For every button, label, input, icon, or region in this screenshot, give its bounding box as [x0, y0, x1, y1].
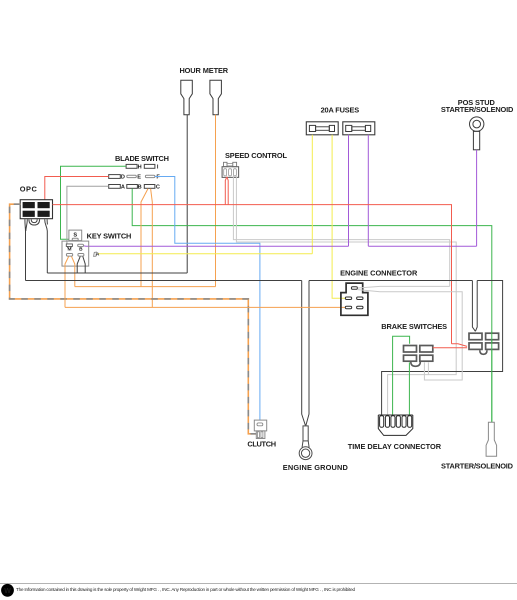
brake switch 2 cell 2 [486, 333, 499, 340]
wire gray blade A to key switch M [67, 186, 109, 244]
fuse F2 body [343, 122, 375, 135]
blade switch terminal F [145, 175, 155, 177]
fuse F1 element [316, 127, 330, 131]
clutch prong 2 [261, 432, 263, 438]
pos stud barrel [473, 131, 479, 149]
wire white speed control pair line 1 [233, 176, 449, 286]
OPC pin 1 [23, 202, 35, 208]
svg-text:The Information contained in t: The Information contained in this drawin… [16, 587, 355, 592]
key switch body [62, 241, 89, 266]
engine connector pin 2 [357, 297, 363, 300]
svg-text:ENGINE CONNECTOR: ENGINE CONNECTOR [340, 268, 418, 277]
speed control tab 2 [233, 162, 237, 166]
fuse F1 body [306, 122, 338, 135]
clutch slot [257, 423, 263, 426]
svg-text:B: B [79, 247, 83, 253]
speed control tab bar [227, 164, 233, 166]
wire orange blade C leg 1 [141, 189, 148, 287]
svg-text:BRAKE SWITCHES: BRAKE SWITCHES [381, 322, 447, 331]
svg-text:BLADE SWITCH: BLADE SWITCH [115, 154, 169, 163]
key switch bottom terminal 2 [78, 254, 84, 257]
wire orange bus to engine connector [65, 306, 346, 308]
footer rule [0, 583, 517, 585]
wire black hour meter terminal 1 down [186, 115, 188, 273]
svg-text:TIME DELAY CONNECTOR: TIME DELAY CONNECTOR [348, 442, 442, 451]
logo wright mfg [1, 584, 14, 597]
time delay connector body [378, 415, 413, 435]
svg-text:A: A [121, 185, 125, 191]
wire orange blade C leg 2 [151, 189, 153, 308]
wire green blade B down and across to brake switch [132, 189, 492, 422]
wire white speed control pair line 2 [236, 176, 456, 416]
wire black brake switch drop [472, 281, 477, 332]
brake switch 2 loop [480, 350, 487, 354]
wire purple key switch B to fuse and pos stud [84, 245, 477, 247]
fuse F2 element [352, 127, 366, 131]
speed control pin 1 [224, 169, 227, 176]
svg-text:W: W [4, 588, 11, 595]
wire white pair stub at brake switch [427, 362, 429, 374]
blade switch terminal E [127, 175, 137, 177]
brake switch 2 cell 3 [469, 343, 482, 350]
wire blue blade F to clutch [155, 177, 260, 425]
wire purple fuse F2 left leg [348, 135, 350, 246]
blade switch terminal H [126, 164, 137, 168]
svg-text:CLUTCH: CLUTCH [247, 439, 276, 448]
svg-text:STARTER/SOLENOID: STARTER/SOLENOID [441, 105, 514, 114]
hour meter terminal 1 [181, 80, 193, 115]
brake switch 1 loop [411, 362, 421, 366]
engine ground ring hole [301, 449, 309, 457]
svg-text:D: D [121, 175, 125, 181]
brake switch 1 cell 4 [420, 355, 433, 361]
time delay pin 6 [408, 416, 412, 428]
svg-text:STARTER/SOLENOID: STARTER/SOLENOID [441, 461, 514, 470]
time delay pin 4 [396, 416, 400, 428]
OPC pin 2 [38, 202, 50, 208]
wire yellow key switch A to fuse F1 [99, 253, 313, 255]
wire purple pos stud down [476, 150, 478, 246]
engine connector pin 3 [345, 306, 351, 309]
svg-text:SPEED CONTROL: SPEED CONTROL [225, 151, 287, 160]
OPC jumper loop [29, 219, 40, 225]
brake switch 1 cell 1 [404, 346, 417, 353]
key switch S housing [69, 230, 82, 241]
fuse F2 contact left [346, 125, 352, 131]
wire white engine connector pair line 2 [358, 290, 462, 380]
svg-text:I: I [157, 164, 159, 170]
speed control tab 1 [224, 162, 228, 166]
wire orange key switch leg to hour meter net [72, 256, 75, 286]
engine connector pin 4 [357, 306, 363, 309]
svg-text:20A FUSES: 20A FUSES [321, 105, 360, 114]
time delay pin 5 [402, 416, 406, 428]
wire green time delay to brake switch 1 top [393, 336, 410, 416]
svg-text:M: M [68, 247, 72, 253]
key switch B terminal [78, 244, 84, 246]
wire orange-gray striped OPC to clutch [10, 204, 258, 434]
key switch S terminal [72, 238, 78, 240]
speed control pin 3 [234, 169, 237, 176]
svg-text:OPC: OPC [20, 184, 38, 193]
wire green brake switch 1 bottom to time delay [408, 362, 410, 416]
wire black key switch leg 1 [77, 256, 80, 273]
brake switch 1 cell 2 [420, 346, 433, 353]
wire white engine connector pair line 1 [358, 286, 450, 288]
wire orange key switch leg to engine connector [65, 256, 69, 307]
time delay pin 2 [385, 416, 389, 428]
clutch prong 1 [257, 432, 259, 438]
pos stud ring hole [473, 120, 481, 128]
svg-text:F: F [156, 175, 160, 181]
pos stud ring terminal [470, 117, 484, 131]
blade switch terminal I [144, 164, 155, 168]
brake switch 2 cell 4 [486, 343, 499, 350]
wire red blade D to OPC [45, 177, 109, 200]
wire purple fuse F2 right leg [367, 135, 369, 246]
wire red speed control loop [225, 177, 228, 205]
speed control pin 2 [229, 169, 232, 176]
hour meter terminal 2 [210, 80, 222, 115]
wire black bus OPC to engine ground and brake switches [26, 281, 503, 417]
time delay connector top edge [378, 414, 413, 416]
wire red into brake switch 2 [433, 344, 467, 348]
OPC pin 3 [23, 211, 35, 217]
blade switch terminal A [109, 185, 121, 189]
starter solenoid bullet terminal [486, 422, 497, 456]
svg-text:KEY SWITCH: KEY SWITCH [87, 231, 132, 240]
clutch connector body [254, 420, 266, 431]
wire green blade H to key switch S [61, 166, 127, 239]
blade switch terminal B [127, 185, 138, 189]
wire red OPC right side across page [53, 205, 452, 344]
wire orange hour meter terminal 2 down [215, 115, 217, 287]
spade terminal A [94, 252, 97, 256]
svg-text:E: E [137, 175, 141, 181]
brake switch 1 cell 3 [404, 355, 417, 361]
wire black OPC pin 4 to hour meter run [45, 219, 48, 273]
wire black engine ground drop [302, 281, 309, 426]
wire yellow fuse F1 right leg to engine connector [332, 135, 346, 298]
key switch M terminal [66, 244, 72, 248]
blade switch terminal D [109, 175, 121, 179]
svg-text:H: H [138, 164, 142, 170]
fuse F1 contact right [329, 125, 334, 131]
time delay pin 3 [391, 416, 395, 428]
engine connector body [341, 283, 368, 315]
fuse F2 contact right [365, 125, 370, 131]
svg-text:C: C [156, 185, 160, 191]
wire orange bus to hour meter [75, 286, 216, 288]
svg-text:HOUR METER: HOUR METER [179, 66, 228, 75]
OPC pin 4 [38, 211, 50, 217]
engine connector pin top [351, 287, 357, 290]
svg-text:ENGINE GROUND: ENGINE GROUND [283, 463, 349, 472]
engine connector pin 1 [345, 297, 351, 300]
wire green through brake switch 2 [491, 332, 493, 423]
svg-text:S: S [73, 232, 77, 238]
engine ground ring [299, 447, 312, 460]
OPC connector body [20, 200, 52, 219]
engine ground barrel [303, 426, 308, 441]
svg-text:B: B [138, 185, 142, 191]
wire black OPC pin 3 to engine ground run [25, 219, 27, 280]
wire black ground bus OPC to hour meter [47, 272, 187, 274]
wire black key switch leg 2 [83, 256, 85, 273]
blade switch terminal C [144, 185, 155, 189]
fuse F1 contact left [309, 125, 315, 131]
time delay pin 1 [380, 416, 384, 428]
key switch bottom terminal 1 [66, 254, 72, 257]
brake switch 2 cell 1 [469, 333, 482, 340]
clutch lower body [256, 431, 265, 439]
wire yellow fuse F1 left leg [311, 135, 313, 254]
speed control connector body [222, 167, 239, 178]
